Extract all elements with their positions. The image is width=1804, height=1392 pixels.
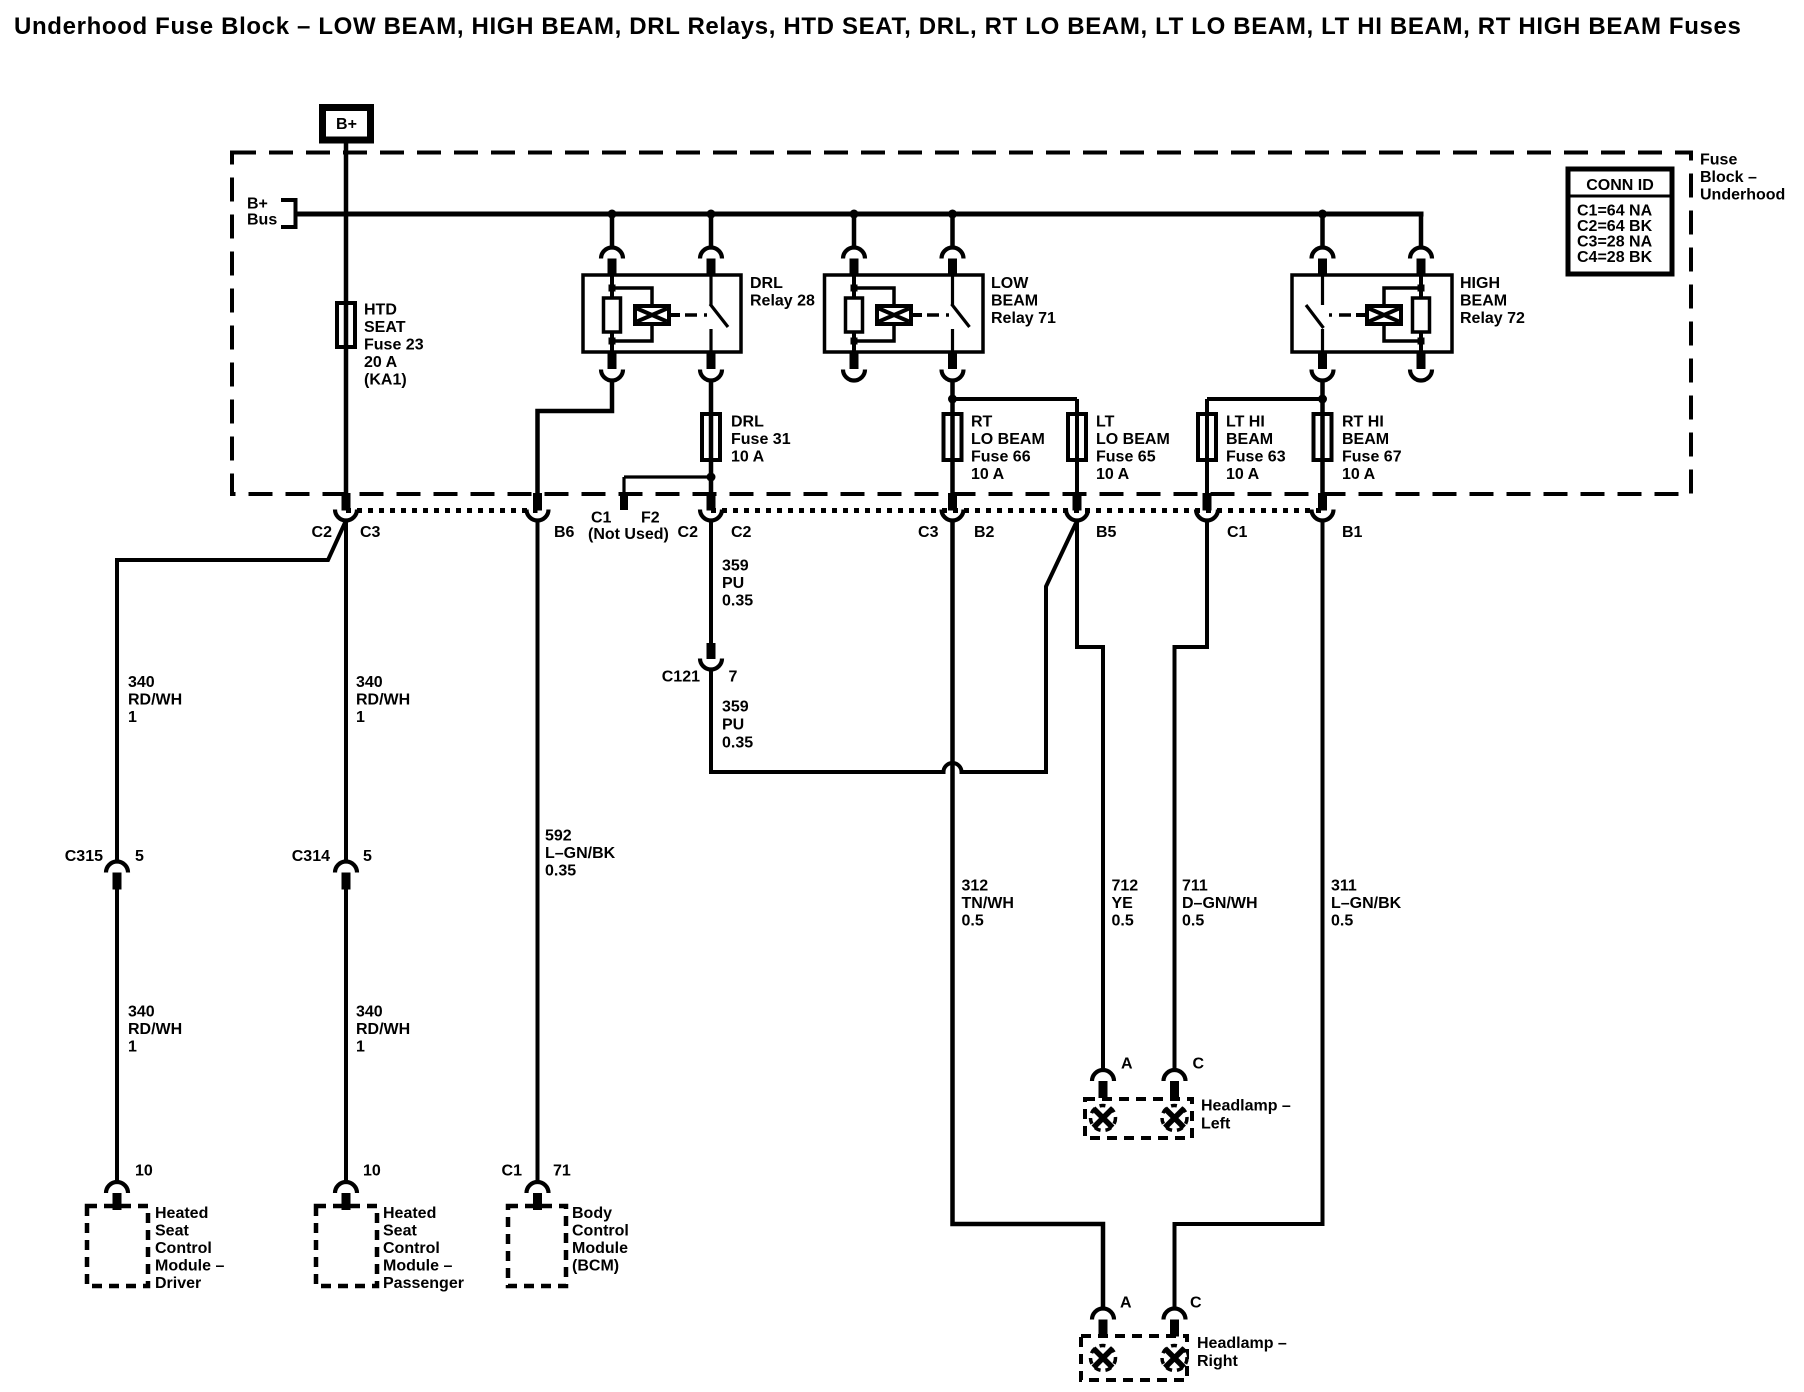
svg-text:C1: C1 <box>502 1163 523 1180</box>
node bus junction LOW BEAM coil <box>850 210 859 219</box>
svg-text:RT HI: RT HI <box>1342 414 1384 431</box>
fuse DRL Fuse 31 <box>702 414 720 460</box>
wire branch to LT HI BEAM fuse <box>1207 399 1323 494</box>
wire B+ bus <box>296 212 1424 217</box>
node junction to LT LO BEAM fuse <box>948 395 957 404</box>
svg-text:DRL: DRL <box>750 275 783 292</box>
svg-text:Underhood Fuse Block – LOW BEA: Underhood Fuse Block – LOW BEAM, HIGH BE… <box>14 13 1742 40</box>
connector B5 at fuse block <box>1066 493 1088 521</box>
CONN ID table <box>1568 169 1672 274</box>
connector pins into LOW BEAM relay <box>843 248 964 276</box>
relay DRL Relay 28 <box>583 275 741 352</box>
B+ power symbol <box>323 108 371 141</box>
fuse HTD SEAT Fuse 23 <box>337 303 355 347</box>
svg-text:C1: C1 <box>591 510 612 527</box>
connector pin A into right headlamp <box>1092 1309 1114 1337</box>
fuse RT LO BEAM Fuse 66 <box>944 414 962 460</box>
svg-text:C2: C2 <box>678 524 699 541</box>
svg-text:LT HI: LT HI <box>1226 414 1265 431</box>
node bus junction LOW BEAM switch <box>948 210 957 219</box>
svg-text:C2=64 BK: C2=64 BK <box>1577 218 1653 235</box>
connector pins out of DRL relay <box>601 352 722 381</box>
svg-text:YE: YE <box>1112 895 1134 912</box>
svg-text:TN/WH: TN/WH <box>962 895 1014 912</box>
fuse block underhood dashed boundary <box>232 153 1691 495</box>
svg-text:DRL: DRL <box>731 414 764 431</box>
connector pin into BCM <box>527 1182 549 1210</box>
svg-text:0.5: 0.5 <box>1331 913 1353 930</box>
svg-text:BEAM: BEAM <box>1342 431 1389 448</box>
svg-text:LO BEAM: LO BEAM <box>971 431 1045 448</box>
node junction to LT HI BEAM fuse <box>1318 395 1327 404</box>
svg-text:B5: B5 <box>1096 524 1117 541</box>
svg-text:Bus: Bus <box>247 212 277 229</box>
wire bus to LOW BEAM relay pins <box>854 214 953 248</box>
wire 359 PU from C2 to C121 <box>709 521 713 644</box>
svg-text:C314: C314 <box>292 848 330 865</box>
connector pins out of LOW BEAM relay <box>843 352 964 381</box>
svg-text:RT: RT <box>971 414 993 431</box>
svg-text:Fuse 67: Fuse 67 <box>1342 449 1402 466</box>
svg-text:HIGH: HIGH <box>1460 275 1500 292</box>
svg-text:RD/WH: RD/WH <box>128 1021 182 1038</box>
svg-text:B1: B1 <box>1342 524 1363 541</box>
svg-text:BEAM: BEAM <box>1226 431 1273 448</box>
svg-text:1: 1 <box>356 1039 365 1056</box>
dotted connector grouping line C2 to B1 <box>711 508 1323 513</box>
svg-text:B6: B6 <box>554 524 575 541</box>
wire 711 D-GN/WH from C1 to left headlamp C <box>1175 521 1208 1071</box>
svg-text:Seat: Seat <box>383 1223 417 1240</box>
wire B+ box to HTD SEAT fuse <box>344 140 349 494</box>
svg-text:Heated: Heated <box>383 1205 436 1222</box>
svg-text:Fuse 66: Fuse 66 <box>971 449 1031 466</box>
connector pin C into left headlamp <box>1164 1070 1186 1098</box>
svg-text:Block –: Block – <box>1700 169 1757 186</box>
svg-text:0.5: 0.5 <box>1112 913 1134 930</box>
svg-text:Passenger: Passenger <box>383 1275 464 1292</box>
svg-text:0.35: 0.35 <box>722 735 753 752</box>
svg-text:Heated: Heated <box>155 1205 208 1222</box>
svg-text:C: C <box>1193 1056 1205 1073</box>
connector pin A into left headlamp <box>1092 1070 1114 1098</box>
svg-text:71: 71 <box>553 1163 571 1180</box>
connector pins into HIGH BEAM relay <box>1312 248 1433 276</box>
svg-text:L–GN/BK: L–GN/BK <box>545 845 616 862</box>
svg-text:311: 311 <box>1331 878 1357 895</box>
svg-text:Left: Left <box>1201 1116 1231 1133</box>
wire 340 RD/WH to C315 driver branch <box>117 521 346 862</box>
svg-text:10: 10 <box>135 1163 153 1180</box>
svg-text:CONN ID: CONN ID <box>1586 177 1654 194</box>
node bus junction DRL coil <box>608 210 617 219</box>
node junction at DRL fuse output <box>707 473 716 482</box>
svg-text:PU: PU <box>722 717 744 734</box>
svg-text:(Not Used): (Not Used) <box>588 526 669 543</box>
svg-text:C: C <box>1190 1295 1202 1312</box>
svg-text:340: 340 <box>128 674 155 691</box>
wire 340 RD/WH to passenger module <box>344 890 348 1183</box>
svg-text:340: 340 <box>356 1004 383 1021</box>
svg-text:592: 592 <box>545 828 572 845</box>
svg-text:Fuse: Fuse <box>1700 152 1737 169</box>
fuse LT LO BEAM Fuse 65 <box>1068 414 1086 460</box>
svg-text:Relay 71: Relay 71 <box>991 310 1056 327</box>
svg-text:C2: C2 <box>731 524 752 541</box>
svg-text:C3: C3 <box>360 524 381 541</box>
svg-text:1: 1 <box>356 709 365 726</box>
connector pin into passenger module <box>335 1182 357 1210</box>
svg-text:C3=28 NA: C3=28 NA <box>1577 234 1653 251</box>
svg-text:0.35: 0.35 <box>545 863 576 880</box>
svg-text:Body: Body <box>572 1205 612 1222</box>
svg-text:RD/WH: RD/WH <box>128 692 182 709</box>
svg-text:10 A: 10 A <box>971 466 1005 483</box>
dotted connector grouping line C2-C3 to B6 <box>346 508 538 513</box>
svg-text:C1=64 NA: C1=64 NA <box>1577 203 1653 220</box>
svg-text:SEAT: SEAT <box>364 319 406 336</box>
relay HIGH BEAM Relay 72 <box>1292 275 1452 352</box>
svg-text:10 A: 10 A <box>731 449 765 466</box>
fuse RT HI BEAM Fuse 67 <box>1314 414 1332 460</box>
connector C3/B2 at fuse block <box>942 493 964 521</box>
connector C1 at fuse block <box>1196 493 1218 521</box>
svg-text:Relay 28: Relay 28 <box>750 293 815 310</box>
connector pins out of HIGH BEAM relay <box>1312 352 1433 381</box>
lamp Headlamp Right <box>1081 1336 1187 1380</box>
connector pins into DRL relay <box>601 248 722 276</box>
node bus junction HIGH BEAM switch <box>1318 210 1327 219</box>
svg-text:HTD: HTD <box>364 302 397 319</box>
wire bus to DRL relay pins <box>612 214 711 248</box>
svg-text:C3: C3 <box>918 524 939 541</box>
svg-text:(KA1): (KA1) <box>364 372 407 389</box>
svg-text:C2: C2 <box>312 524 333 541</box>
node bus junction DRL switch <box>707 210 716 219</box>
svg-text:(BCM): (BCM) <box>572 1258 619 1275</box>
svg-text:Underhood: Underhood <box>1700 187 1785 204</box>
svg-text:711: 711 <box>1182 878 1208 895</box>
svg-text:BEAM: BEAM <box>991 293 1038 310</box>
svg-text:712: 712 <box>1112 878 1139 895</box>
svg-text:Seat: Seat <box>155 1223 189 1240</box>
svg-text:1: 1 <box>128 709 137 726</box>
wire 712 YE from B5 to left headlamp A <box>1077 521 1103 1071</box>
wire DRL coil out to B6 <box>538 381 613 495</box>
svg-text:0.5: 0.5 <box>1182 913 1204 930</box>
svg-text:LOW: LOW <box>991 275 1029 292</box>
svg-text:RD/WH: RD/WH <box>356 692 410 709</box>
wire 340 RD/WH to C314 passenger branch <box>344 521 348 862</box>
svg-text:BEAM: BEAM <box>1460 293 1507 310</box>
svg-text:Fuse 63: Fuse 63 <box>1226 449 1286 466</box>
svg-text:10 A: 10 A <box>1096 466 1130 483</box>
svg-text:20 A: 20 A <box>364 354 398 371</box>
wire 312 TN/WH from B2 to right headlamp A <box>953 521 1104 1309</box>
svg-text:D–GN/WH: D–GN/WH <box>1182 895 1258 912</box>
svg-text:7: 7 <box>729 669 738 686</box>
svg-text:0.35: 0.35 <box>722 593 753 610</box>
connector C2/C2 at fuse block <box>700 493 722 521</box>
svg-text:C121: C121 <box>662 669 700 686</box>
svg-text:359: 359 <box>722 699 749 716</box>
wire DRL switch out to Fuse 31 <box>709 381 714 495</box>
svg-text:Headlamp –: Headlamp – <box>1197 1335 1287 1352</box>
fuse LT HI BEAM Fuse 63 <box>1198 414 1216 460</box>
svg-text:B2: B2 <box>974 524 995 541</box>
wire LOW BEAM switch out to fuses <box>950 381 955 495</box>
connector C121 pin 7 <box>700 643 722 670</box>
svg-text:Control: Control <box>155 1240 212 1257</box>
svg-text:A: A <box>1121 1056 1133 1073</box>
svg-text:1: 1 <box>128 1039 137 1056</box>
wire 592 L-GN/BK to BCM <box>536 521 540 1183</box>
svg-text:Module –: Module – <box>383 1258 452 1275</box>
svg-text:Fuse 23: Fuse 23 <box>364 337 424 354</box>
svg-text:C4=28 BK: C4=28 BK <box>1577 249 1653 266</box>
svg-text:F2: F2 <box>641 510 660 527</box>
svg-text:10: 10 <box>363 1163 381 1180</box>
svg-text:312: 312 <box>962 878 989 895</box>
svg-text:340: 340 <box>356 674 383 691</box>
wire bus to HIGH BEAM switch pin <box>1320 214 1325 248</box>
svg-text:340: 340 <box>128 1004 155 1021</box>
connector pin into driver module <box>106 1182 128 1210</box>
svg-text:C315: C315 <box>65 848 103 865</box>
connector C2/C3 at fuse block <box>335 493 357 521</box>
svg-text:B+: B+ <box>247 196 268 213</box>
connector B6 at fuse block <box>527 493 549 521</box>
svg-text:10 A: 10 A <box>1226 466 1260 483</box>
wire 340 RD/WH to driver module <box>115 890 119 1183</box>
wire bus end elbow to HIGH BEAM coil pin <box>1419 214 1424 248</box>
svg-text:B+: B+ <box>336 116 357 133</box>
svg-text:Fuse 31: Fuse 31 <box>731 431 791 448</box>
svg-text:5: 5 <box>363 848 372 865</box>
module Heated Seat Control Module - Passenger <box>316 1206 377 1286</box>
svg-text:LT: LT <box>1096 414 1115 431</box>
module Body Control Module (BCM) <box>508 1206 566 1286</box>
svg-text:A: A <box>1120 1295 1132 1312</box>
wire 359 PU from C121 to B5 with crossover hop <box>711 523 1076 772</box>
pin C1 F2 not used <box>620 494 628 510</box>
wire 311 L-GN/BK from B1 to right headlamp C <box>1175 521 1323 1309</box>
svg-text:C1: C1 <box>1227 524 1248 541</box>
connector C314 <box>335 862 357 890</box>
svg-text:Control: Control <box>383 1240 440 1257</box>
relay LOW BEAM Relay 71 <box>825 275 984 352</box>
svg-text:L–GN/BK: L–GN/BK <box>1331 895 1402 912</box>
connector C315 <box>106 862 128 890</box>
svg-text:PU: PU <box>722 575 744 592</box>
svg-text:Module –: Module – <box>155 1258 224 1275</box>
svg-text:Control: Control <box>572 1223 629 1240</box>
svg-text:0.5: 0.5 <box>962 913 984 930</box>
svg-text:RD/WH: RD/WH <box>356 1021 410 1038</box>
svg-text:10 A: 10 A <box>1342 466 1376 483</box>
svg-text:359: 359 <box>722 558 749 575</box>
connector pin C into right headlamp <box>1164 1309 1186 1337</box>
lamp Headlamp Left <box>1085 1099 1192 1138</box>
wire C1 F2 not used stub <box>624 477 711 494</box>
svg-text:Driver: Driver <box>155 1275 201 1292</box>
svg-text:Module: Module <box>572 1240 628 1257</box>
svg-text:LO BEAM: LO BEAM <box>1096 431 1170 448</box>
svg-text:5: 5 <box>135 848 144 865</box>
svg-text:Right: Right <box>1197 1353 1239 1370</box>
connector B1 at fuse block <box>1312 493 1334 521</box>
module Heated Seat Control Module - Driver <box>87 1206 148 1286</box>
B+ bus bracket <box>281 200 296 227</box>
wire branch to LT LO BEAM fuse <box>953 399 1078 494</box>
svg-text:Fuse 65: Fuse 65 <box>1096 449 1156 466</box>
svg-text:Relay 72: Relay 72 <box>1460 310 1525 327</box>
svg-text:Headlamp –: Headlamp – <box>1201 1098 1291 1115</box>
wire HIGH BEAM switch out to fuses <box>1320 381 1325 495</box>
